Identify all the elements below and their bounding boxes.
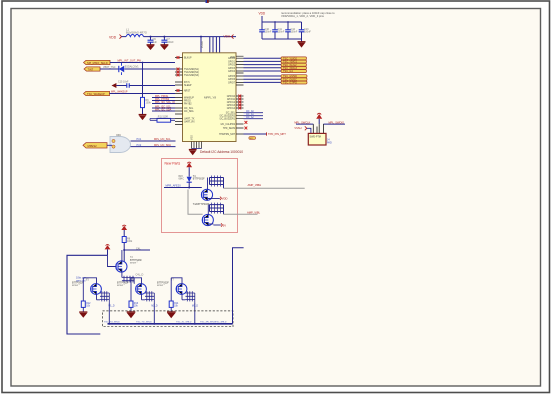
svg-text:PROG: PROG <box>184 101 191 103</box>
svg-text:TSC/GND(N3): TSC/GND(N3) <box>184 75 199 77</box>
svg-text:100nF: 100nF <box>304 31 311 34</box>
svg-text:100k: 100k <box>127 240 133 243</box>
resistor ladder pack 2 <box>210 203 224 215</box>
wire jumper SCL <box>131 138 176 141</box>
resistor R8 <box>122 237 133 251</box>
svg-text:GPIO1: GPIO1 <box>228 61 236 63</box>
wire PROG nets <box>152 95 175 104</box>
svg-text:I2C_CALIPR2: I2C_CALIPR2 <box>221 123 236 126</box>
IC U1 left pin names <box>184 58 199 124</box>
svg-text:TSC/GND(N2): TSC/GND(N2) <box>184 72 199 74</box>
svg-text:M1_D: M1_D <box>108 306 114 308</box>
svg-text:arrow *: arrow * <box>117 284 125 287</box>
IC U1 left pin stubs <box>175 58 183 125</box>
IC U1 right pin stubs GPIO <box>236 56 244 134</box>
port XXX_WAKE <box>84 91 110 96</box>
no-connect X marks right pins <box>238 95 247 130</box>
svg-text:arrow *: arrow * <box>157 284 165 287</box>
svg-text:Default I2C Address:1000010: Default I2C Address:1000010 <box>200 150 243 154</box>
svg-text:TPD_PIN_MPT: TPD_PIN_MPT <box>268 132 286 136</box>
svg-text:MPL_I2C_SDA: MPL_I2C_SDA <box>154 144 171 147</box>
svg-text:VDH: VDH <box>224 35 231 39</box>
svg-text:MPL_SWCLK: MPL_SWCLK <box>294 120 310 124</box>
transistor Q3 top mosfet <box>108 250 143 278</box>
svg-text:I2C_SDA: I2C_SDA <box>184 110 194 113</box>
port GPIO0-4 labels <box>281 57 307 73</box>
ground cell2 <box>127 312 136 318</box>
annotation box New Parts <box>162 159 238 233</box>
svg-text:TSC_WAKEUP: TSC_WAKEUP <box>87 92 105 96</box>
svg-text:TSC_YU_SHLD: TSC_YU_SHLD <box>104 322 120 324</box>
svg-text:UART_TX: UART_TX <box>184 118 195 121</box>
wire cap bank top rail <box>262 21 302 23</box>
svg-text:VBRT_TSC: VBRT_TSC <box>103 66 116 69</box>
jumper DIC body <box>107 133 131 153</box>
port TINT <box>84 67 100 72</box>
ground <box>298 42 306 48</box>
no-connect X marks left pins <box>177 56 180 92</box>
svg-text:I2C_A0: I2C_A0 <box>246 110 254 113</box>
svg-text:TINT: TINT <box>88 67 94 71</box>
power flag VDD <box>109 35 122 40</box>
wire left big loop <box>67 255 108 334</box>
svg-text:GPIO3: GPIO3 <box>228 68 236 70</box>
svg-text:PU2: PU2 <box>137 144 142 147</box>
svg-text:100k: 100k <box>146 102 152 105</box>
svg-text:TSC_YD_SHLD: TSC_YD_SHLD <box>136 322 152 324</box>
power flag VDH <box>224 35 234 39</box>
wire SWCLK <box>294 120 313 124</box>
ground <box>160 45 168 50</box>
resistor ladder cell1 <box>97 291 115 324</box>
capacitor C11 <box>272 22 285 39</box>
svg-text:PAD: PAD <box>327 141 332 144</box>
svg-text:MPR_AFE20: MPR_AFE20 <box>166 184 182 188</box>
wire AMP_VIBL gray <box>224 210 261 214</box>
svg-text:VSSH: VSSH <box>294 126 301 130</box>
resistor R3 pulldown <box>141 63 152 115</box>
transistor T6 mosfet cell2 <box>117 278 146 300</box>
svg-text:TSC_G7/PD: TSC_G7/PD <box>283 82 297 85</box>
inductor L1 <box>126 34 144 36</box>
svg-text:TSC_XR_SHLD: TSC_XR_SHLD <box>200 322 216 324</box>
svg-text:I2C_BUZZER1: I2C_BUZZER1 <box>220 119 236 121</box>
transistor T7 mosfet cell3 <box>157 278 187 300</box>
svg-text:INT/1: INT/1 <box>184 82 190 84</box>
svg-text:GPIO0: GPIO0 <box>228 58 236 60</box>
transistor Q1 mosfet <box>201 178 212 201</box>
wire TPD net <box>244 132 287 136</box>
power flag 5V right <box>213 223 226 227</box>
svg-text:GPIO6: GPIO6 <box>228 79 236 81</box>
svg-text:New Parts: New Parts <box>165 161 181 165</box>
power flag VDD <box>316 113 322 124</box>
wire C4L node <box>123 247 150 261</box>
resistor ladder pack top <box>122 274 144 284</box>
svg-text:GPIO7: GPIO7 <box>228 82 236 84</box>
svg-text:684C: 684C <box>179 178 185 180</box>
svg-text:VSS: VSS <box>191 135 194 140</box>
I2C address note <box>200 150 243 154</box>
svg-text:MPL_I2C_SCL_IO: MPL_I2C_SCL_IO <box>155 101 175 104</box>
resistor ladder pack 1 <box>210 176 224 189</box>
ground <box>189 150 197 156</box>
svg-text:ESDALC6V1: ESDALC6V1 <box>125 66 139 69</box>
wire wakeup <box>110 91 176 94</box>
ground <box>139 115 147 121</box>
wire jumper SDA <box>131 144 176 147</box>
wire drops to IC top pins <box>201 37 220 53</box>
svg-text:MPR_Y8: MPR_Y8 <box>204 96 216 100</box>
svg-text:TSC/GND(N1): TSC/GND(N1) <box>184 69 199 71</box>
svg-text:NRST: NRST <box>184 91 191 93</box>
svg-text:VDD: VDD <box>222 197 228 201</box>
header J2 body <box>308 133 332 145</box>
svg-text:TSC_XL_SHLD: TSC_XL_SHLD <box>176 322 192 324</box>
svg-text:MPL_INT_OUT_PW: MPL_INT_OUT_PW <box>118 58 142 62</box>
capacitor C10 <box>259 22 272 39</box>
capacitor C13 <box>299 22 312 39</box>
transistor T5 mosfet cell1 <box>72 278 101 300</box>
svg-text:SWD-PTM: SWD-PTM <box>310 136 321 139</box>
svg-text:I2C_SEL: I2C_SEL <box>226 113 236 115</box>
svg-text:VDD: VDD <box>109 36 117 40</box>
wire I2C nets to IC <box>152 105 175 111</box>
svg-text:AMP_VIBL: AMP_VIBL <box>247 210 261 214</box>
capacitor C2 <box>161 37 174 45</box>
svg-text:arrow *: arrow * <box>72 284 80 287</box>
annotation PWM label <box>76 277 87 283</box>
power flag arrow left <box>112 83 127 88</box>
note text <box>281 11 335 18</box>
capacitor C12 <box>285 22 298 39</box>
svg-text:I2C_BUZZER2: I2C_BUZZER2 <box>220 116 236 118</box>
wire MPR_AFE net <box>164 184 202 189</box>
power flag VSSH <box>294 126 311 133</box>
resistor R14 gate pulldown cell3 <box>169 278 179 312</box>
svg-text:VDD: VDD <box>259 12 266 16</box>
wire from SPI port <box>110 58 175 63</box>
jumper SJ1 small label <box>249 137 256 140</box>
svg-text:GPIO2: GPIO2 <box>228 65 236 67</box>
svg-text:100nF: 100nF <box>291 31 298 34</box>
svg-text:SLEEP: SLEEP <box>184 85 192 87</box>
wire shield bus <box>104 322 233 325</box>
svg-text:100nF: 100nF <box>278 31 285 34</box>
svg-text:GPIO10: GPIO10 <box>227 96 236 98</box>
svg-text:GPIO14: GPIO14 <box>227 108 236 110</box>
top edge tick mark <box>206 0 209 3</box>
svg-text:UART_RX: UART_RX <box>184 121 195 124</box>
svg-text:I2C_A1: I2C_A1 <box>246 113 254 116</box>
transistor Q2 mosfet <box>193 203 214 226</box>
power flag VDD right <box>213 197 228 201</box>
svg-text:R11 510R: R11 510R <box>158 117 169 119</box>
svg-text:MPL_I2C_SCL: MPL_I2C_SCL <box>154 138 171 141</box>
svg-text:WAKEUP: WAKEUP <box>184 97 194 100</box>
capacitor C1 <box>148 37 158 45</box>
wire SWDIO <box>323 120 345 124</box>
port SPI_MISO_OUT <box>84 60 111 65</box>
svg-text:VDD/VDDA_1, VDD_2, VDD_3 pins: VDD/VDDA_1, VDD_2, VDD_3 pins <box>281 14 325 18</box>
svg-text:MPL_SWDIO: MPL_SWDIO <box>329 120 345 124</box>
svg-text:100nF: 100nF <box>265 31 272 34</box>
svg-text:AMP_VIBH: AMP_VIBH <box>248 183 262 187</box>
svg-text:100nF: 100nF <box>167 41 175 44</box>
wire gray gate link <box>188 190 203 215</box>
svg-text:MPL_I2C_SDA: MPL_I2C_SDA <box>155 108 172 111</box>
svg-text:BLKUP: BLKUP <box>184 58 192 60</box>
wire VDD rail <box>122 36 237 38</box>
ground cell1 <box>79 312 87 318</box>
svg-text:TSC_SHLD: TSC_SHLD <box>215 322 227 324</box>
svg-text:VDDA: VDDA <box>201 41 204 48</box>
svg-text:MPL_WAKEUP: MPL_WAKEUP <box>111 91 128 94</box>
svg-text:M3_D: M3_D <box>192 306 198 308</box>
svg-text:TSC_G4: TSC_G4 <box>283 70 293 73</box>
zener diode T1 <box>179 175 206 188</box>
svg-text:PU1: PU1 <box>137 138 142 141</box>
svg-text:M2_D: M2_D <box>151 306 157 308</box>
wire GPIO group1 <box>244 58 282 71</box>
svg-text:C4L_D: C4L_D <box>136 274 144 277</box>
svg-text:PHYB2: PHYB2 <box>184 104 192 106</box>
port GPIO5-7 labels <box>281 75 307 85</box>
svg-text:TPD/PRS_NRT: TPD/PRS_NRT <box>219 134 236 136</box>
op IC U1 body <box>183 53 237 142</box>
shield dashed box <box>103 311 234 327</box>
diode D1 ESD <box>119 63 139 75</box>
wire bus riser to opamps <box>233 248 244 324</box>
resistor R5 horizontal <box>150 117 175 123</box>
svg-text:I2C_A2: I2C_A2 <box>246 116 254 119</box>
svg-text:GPIO4: GPIO4 <box>228 71 236 73</box>
svg-text:GPIO5: GPIO5 <box>228 76 236 78</box>
svg-text:1uF: 1uF <box>153 41 158 44</box>
svg-text:SPI_MISO_SHLD: SPI_MISO_SHLD <box>87 61 108 65</box>
svg-text:GPIO11: GPIO11 <box>227 99 236 101</box>
resistor ladder cell3 <box>182 291 198 324</box>
wire GPIO group2 <box>244 76 282 82</box>
ground <box>147 45 155 50</box>
svg-text:BTTPS03F: BTTPS03F <box>193 177 205 180</box>
ground cell3 <box>167 312 176 318</box>
svg-text:MPES2: MPES2 <box>88 144 98 148</box>
wire TINT net <box>100 66 175 69</box>
IC U1 right pin names <box>219 58 236 136</box>
power flag VDD 2 <box>105 244 111 255</box>
svg-text:arrow *: arrow * <box>130 262 138 265</box>
svg-text:C15 10nF: C15 10nF <box>118 81 129 84</box>
wire AMP_VIB gray <box>224 183 305 188</box>
inductor L1 value label <box>126 27 147 34</box>
wire cap bank bottom rail <box>262 39 302 42</box>
svg-text:I2C_SCL: I2C_SCL <box>184 108 194 110</box>
svg-text:C4L: C4L <box>136 247 141 250</box>
svg-text:5V: 5V <box>223 223 226 227</box>
svg-text:TPD_SENS: TPD_SENS <box>223 128 236 130</box>
IC U1 bottom pin stubs <box>191 135 202 149</box>
wire I2C select stubs <box>244 110 264 119</box>
port MPES <box>83 143 107 148</box>
power flag VDD <box>121 225 127 236</box>
power flag VBH <box>259 12 266 22</box>
svg-text:GPIO13: GPIO13 <box>227 105 236 107</box>
svg-text:GPIO12: GPIO12 <box>227 102 236 104</box>
resistor ladder cell2 <box>142 291 158 324</box>
capacitor C3 series <box>118 81 175 88</box>
power flag VDD top <box>186 162 192 177</box>
resistor R13 gate pulldown cell2 <box>129 278 139 312</box>
resistor R12 gate pulldown cell1 <box>81 278 91 312</box>
header J2 pins <box>313 124 323 133</box>
